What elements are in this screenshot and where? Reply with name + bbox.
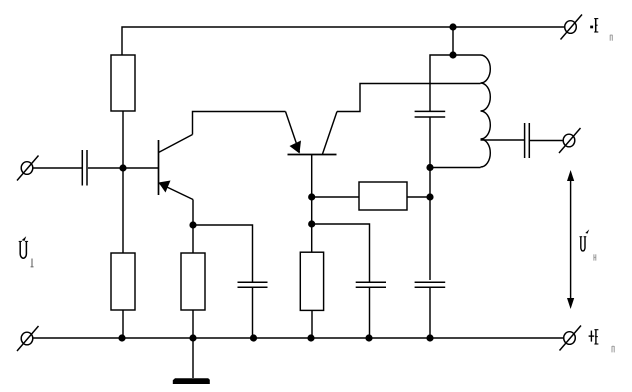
wire emitter node to R3 [192,225,194,253]
wire base node to R2 [122,168,124,253]
resistor R2 [111,253,135,310]
wire C4 bottom to rail [369,287,371,338]
wire base node to R5 [312,196,359,198]
node rail R2 [118,334,125,341]
resistor R1 [111,55,135,111]
wire coil bottom to node [430,167,481,169]
resistor R4 [300,252,323,310]
wire C6 to output port [530,140,563,142]
capacitor C1 [82,150,87,186]
wire input port to C1 [33,167,82,169]
node base-R5 junction [308,193,315,200]
wire tank column top [430,55,481,111]
wire base-C4 node to C4 [312,224,370,282]
wire coil bottom node down [429,168,431,281]
inductor L1 [481,55,491,167]
transistor VT2 [286,112,338,155]
port common bottom-left terminal [17,326,39,351]
wire R1 bottom to base node [122,111,124,168]
port output terminal [559,128,581,153]
label U1 input voltage [19,236,34,267]
node rail R4 [307,334,314,341]
node rail C5 [426,334,433,341]
wire VT2 collector to coil tap [337,84,481,112]
port -Ep terminal [561,15,583,40]
node rail R3 [189,334,196,341]
node rail-coil junction [449,23,456,30]
wire node to R4 [311,224,313,252]
capacitor C5 [415,282,446,287]
port +Ep terminal [560,326,582,351]
arrow output voltage measure [567,170,574,309]
wire top rail [122,27,564,55]
node base-C4 junction [308,220,315,227]
node coil bottom junction [426,164,433,171]
node R5-tank junction [426,193,433,200]
node VT1 emitter junction [189,221,196,228]
wire R5 to tank column [407,196,430,198]
transistor VT1 [159,135,194,200]
resistor R5 [359,182,407,210]
wire VT2 base down [311,154,313,197]
node rail C4 [365,334,372,341]
capacitor C6 [525,123,530,158]
wire base node down [311,197,313,224]
wire bottom rail [33,337,563,339]
wire VT1 collector to VT2 emitter [193,112,286,135]
node rail C2 [250,334,257,341]
wire rail to coil top [452,27,454,55]
wire coil tap to C6 [481,139,525,141]
wire C1 to VT1 base [88,167,158,169]
port input terminal [17,156,39,181]
wire emitter node to C2 [193,225,253,282]
capacitor C2 [238,282,268,287]
resistor R3 [181,253,205,310]
label +Ep supply [589,329,615,352]
wire C5 bottom to rail [429,287,431,338]
wire R2 bottom to rail [122,310,124,338]
label -Ep supply [590,18,612,40]
wire C2 bottom to rail [252,287,254,338]
ground [173,338,210,384]
capacitor C3 tank [415,111,446,117]
node base of VT1 [119,164,126,171]
node coil top junction [449,51,456,58]
wire C3 to coil bottom node [429,117,431,168]
wire VT1 emitter down [192,200,194,226]
wire R3 bottom to rail [192,310,194,338]
capacitor C4 [356,282,386,287]
wire R4 bottom to rail [311,310,313,338]
label UH output voltage [580,229,596,260]
